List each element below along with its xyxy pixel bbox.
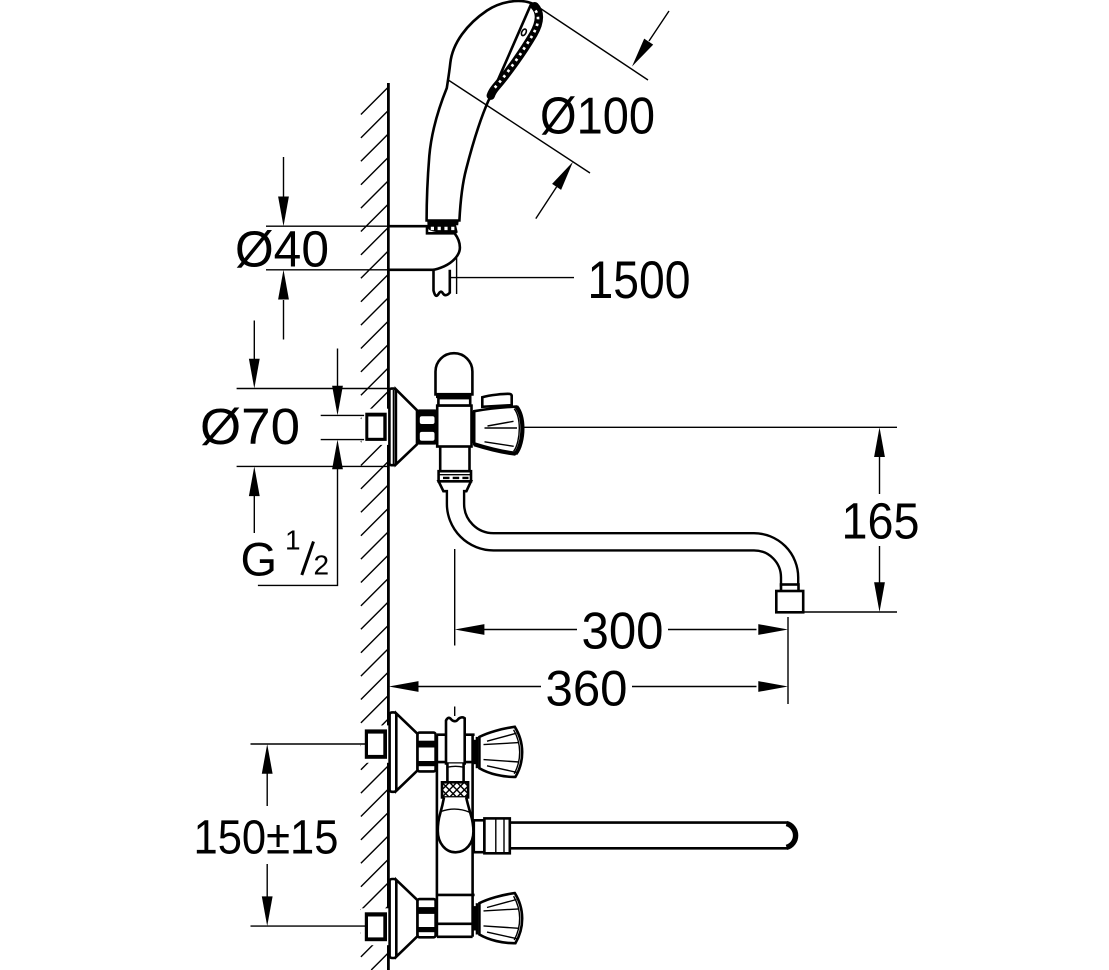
upper waterway lines — [437, 735, 475, 762]
mid hex nut — [417, 409, 437, 444]
svg-text:2: 2 — [314, 550, 330, 581]
mid flange — [439, 471, 471, 481]
dim Ø70 extension lines — [237, 389, 390, 467]
svg-text:150±15: 150±15 — [194, 812, 339, 865]
svg-text:Ø40: Ø40 — [235, 221, 329, 278]
mid handle inner face line — [514, 409, 520, 452]
dim 360 line and arrows — [389, 681, 419, 692]
mid handle socket shadow — [472, 411, 475, 443]
upper handle bell front — [479, 727, 522, 777]
mid dome cap — [436, 353, 473, 394]
collar below pipe — [447, 764, 463, 783]
dim 150 extension lines — [251, 744, 367, 926]
mid dome ring — [436, 393, 472, 398]
spout nut front — [484, 818, 509, 853]
mid taper — [439, 481, 471, 491]
shower outlet pipe front — [446, 717, 465, 763]
svg-text:165: 165 — [842, 493, 920, 550]
dim 300 line and arrows — [455, 624, 485, 635]
svg-text:300: 300 — [582, 603, 664, 661]
upper union hex nut front — [418, 733, 436, 772]
spout tube front — [510, 823, 787, 849]
upper handle socket front — [473, 740, 477, 764]
holder knurled seat — [427, 225, 457, 234]
mid supply square — [362, 409, 389, 445]
shower handle bottom cap — [427, 220, 459, 226]
dim Ø100 arrows — [649, 11, 669, 41]
dim 150 arrows — [262, 744, 273, 774]
pipe centerline tick — [454, 707, 456, 717]
knurled nut front — [442, 782, 468, 797]
lower handle bell front — [479, 893, 522, 943]
lower escutcheon plate front — [390, 879, 397, 958]
dim 300 extension lines — [455, 549, 788, 704]
spout tube — [455, 491, 789, 587]
mid body block — [437, 406, 471, 447]
shower hose — [434, 270, 450, 296]
dim Ø40 extension lines — [266, 226, 388, 270]
shower face plate band — [491, 6, 539, 95]
mid handle ridges — [485, 421, 518, 446]
dim 165 arrows — [874, 427, 885, 457]
mid escutcheon cone — [396, 389, 417, 464]
bottom supply square lower — [361, 908, 389, 945]
lower handle socket front — [473, 906, 477, 930]
mid lower column — [440, 447, 469, 472]
spout socket front — [474, 820, 485, 852]
svg-text:G: G — [241, 533, 278, 586]
svg-text:1500: 1500 — [588, 251, 691, 310]
wall hatching — [361, 87, 389, 970]
mid handle bell — [474, 407, 522, 454]
svg-text:Ø100: Ø100 — [540, 88, 655, 146]
dim G1/2 extension lines — [321, 415, 364, 439]
lower waterway lines — [437, 895, 475, 924]
hose cone edge — [456, 258, 458, 294]
upper escutcheon cone front — [396, 713, 417, 790]
hand shower body — [427, 1, 532, 221]
lower union hex nut front — [418, 899, 436, 937]
dim Ø70 arrows — [253, 321, 255, 361]
svg-text:1: 1 — [285, 525, 301, 556]
dim G1/2 arrows — [337, 349, 339, 388]
upper escutcheon plate front — [390, 712, 397, 791]
mid handle tab — [482, 394, 511, 407]
svg-text:360: 360 — [546, 661, 628, 717]
dim Ø100 extension lines — [448, 6, 649, 174]
spout end cap front — [787, 824, 796, 848]
mid escutcheon plate — [389, 389, 395, 466]
lower escutcheon cone front — [396, 880, 417, 957]
spout nozzle — [781, 585, 799, 592]
dim 165 extension lines — [523, 427, 898, 612]
svg-text:Ø70: Ø70 — [200, 398, 300, 455]
diverter bulb — [438, 797, 474, 852]
shower holder arm — [388, 226, 460, 270]
wall line — [387, 83, 390, 970]
dim 1500 leader — [450, 277, 574, 279]
body column front — [437, 735, 473, 937]
shower face pause hole — [520, 28, 527, 36]
dim Ø40 arrows — [283, 157, 285, 199]
mid neck ring — [438, 398, 470, 406]
bottom supply square upper — [361, 725, 389, 762]
